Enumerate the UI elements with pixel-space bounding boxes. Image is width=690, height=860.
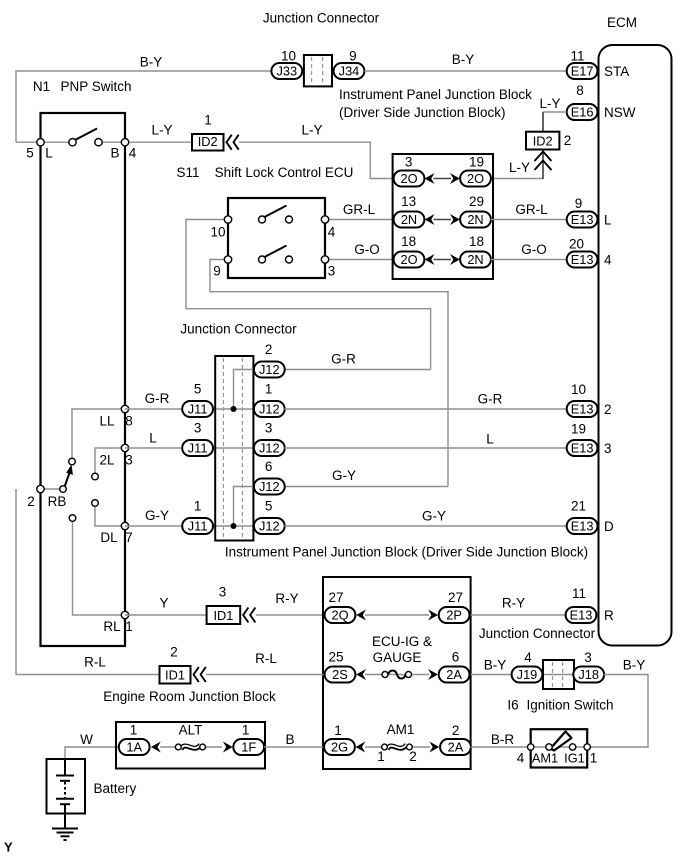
label S11 Shift Lock Control ECU xyxy=(176,165,353,180)
svg-text:G-Y: G-Y xyxy=(422,508,446,523)
svg-text:5: 5 xyxy=(194,381,202,396)
chevrons right of ID1 pin 3 xyxy=(243,608,255,623)
svg-text:2G: 2G xyxy=(331,739,348,754)
ignition contact IG1 xyxy=(564,744,585,766)
svg-text:L-Y: L-Y xyxy=(151,122,172,137)
svg-text:2O: 2O xyxy=(400,171,417,186)
connector 2A pin 2 xyxy=(440,723,471,755)
connector 2N pin 13 xyxy=(394,194,425,228)
ignition switch pin 1 xyxy=(584,744,597,766)
ignition switch pin 4 xyxy=(517,744,534,766)
battery xyxy=(47,759,137,828)
PNP pin 5 xyxy=(26,139,44,161)
svg-text:R-Y: R-Y xyxy=(502,595,525,610)
svg-text:27: 27 xyxy=(448,590,463,605)
PNP pin 7 wire to DL contact xyxy=(95,507,125,527)
svg-text:4: 4 xyxy=(517,750,525,765)
wire G-O 2N pin18 to E13 pin20 xyxy=(491,242,567,260)
wire L-Y from ID2 down to 2O pin 19 xyxy=(491,150,544,180)
svg-text:E13: E13 xyxy=(571,212,594,227)
svg-text:NSW: NSW xyxy=(604,105,636,120)
ignition key symbol xyxy=(551,732,572,751)
shift lock bottom switch blade xyxy=(265,246,287,258)
shift lock ECU box S11 xyxy=(228,198,325,278)
wire B-Y from left bus to J33 xyxy=(16,54,271,142)
junction block box (2Q/2S/2G) xyxy=(323,577,471,769)
svg-text:20: 20 xyxy=(569,236,584,251)
svg-text:E13: E13 xyxy=(571,252,594,267)
svg-text:R: R xyxy=(604,608,614,623)
connector J12 pin 1 xyxy=(254,381,285,417)
svg-text:RB: RB xyxy=(48,494,67,509)
PNP pin 7 xyxy=(100,522,132,545)
svg-text:ID1: ID1 xyxy=(165,668,185,683)
svg-text:21: 21 xyxy=(571,498,586,513)
svg-text:1: 1 xyxy=(125,619,133,634)
wire G-Y PNP pin7 to J11 pin1 xyxy=(125,508,183,526)
svg-text:2: 2 xyxy=(564,133,572,148)
svg-text:6: 6 xyxy=(452,649,460,664)
junction node B (dot) xyxy=(231,523,237,529)
ignition contact AM1 xyxy=(532,744,558,766)
svg-text:1: 1 xyxy=(242,722,250,737)
svg-text:2: 2 xyxy=(265,342,273,357)
svg-text:STA: STA xyxy=(604,64,629,79)
svg-text:IG1: IG1 xyxy=(564,750,585,765)
svg-text:ECU-IG &: ECU-IG & xyxy=(372,634,432,649)
fuse ECU-IG & GAUGE xyxy=(372,634,432,679)
connector J12 pin 2 xyxy=(254,342,285,378)
svg-text:J11: J11 xyxy=(188,401,208,416)
svg-text:G-R: G-R xyxy=(478,391,503,406)
svg-text:Instrument Panel Junction Bloc: Instrument Panel Junction Block (Driver … xyxy=(225,544,588,559)
connector 2O pin 19 xyxy=(460,154,491,186)
svg-text:18: 18 xyxy=(469,234,484,249)
PNP rotary wiper arm xyxy=(65,465,73,487)
svg-text:2P: 2P xyxy=(446,607,462,622)
svg-text:R-L: R-L xyxy=(84,654,106,669)
svg-text:J34: J34 xyxy=(339,63,360,78)
ECM connector E16 pin 8 (NSW) xyxy=(567,83,636,120)
svg-text:8: 8 xyxy=(125,413,133,428)
svg-text:DL: DL xyxy=(100,530,118,545)
svg-text:10: 10 xyxy=(571,382,586,397)
wire R-Y ID1 to 2Q pin27 xyxy=(256,591,325,615)
svg-text:J12: J12 xyxy=(259,518,280,533)
shift lock bottom contacts xyxy=(259,256,293,263)
svg-text:5: 5 xyxy=(26,145,34,160)
svg-text:9: 9 xyxy=(575,196,583,211)
svg-text:10: 10 xyxy=(210,224,225,239)
svg-text:J11: J11 xyxy=(188,518,208,533)
fuse AM1 xyxy=(377,722,417,764)
wire across 2Q to 2P xyxy=(365,614,429,616)
connector 2O pin 18 xyxy=(394,234,425,268)
ECM connector E13 pin 9 (L) xyxy=(567,196,612,228)
svg-text:N1: N1 xyxy=(33,79,50,94)
wire G-R J12 pin2 going right xyxy=(284,351,430,369)
svg-text:2N: 2N xyxy=(467,252,483,267)
PNP contact LL xyxy=(69,458,76,465)
ground xyxy=(52,829,78,841)
connector 2P pin 27 xyxy=(439,590,470,623)
svg-text:R-L: R-L xyxy=(255,651,277,666)
shift lock pin 10 xyxy=(210,216,231,240)
svg-text:G-Y: G-Y xyxy=(332,468,356,483)
label N1 PNP Switch xyxy=(33,79,132,94)
arrows row 2O/2N xyxy=(425,254,460,265)
fusible link box ALT xyxy=(116,722,265,769)
arrow at 1F xyxy=(223,742,233,753)
wire GR-L 2N pin29 to E13 pin9 xyxy=(491,202,567,220)
svg-text:AM1: AM1 xyxy=(532,750,558,765)
svg-text:Junction Connector: Junction Connector xyxy=(263,10,380,25)
connector 2N pin 29 xyxy=(460,194,491,228)
svg-text:L-Y: L-Y xyxy=(539,96,560,111)
svg-text:R-Y: R-Y xyxy=(275,591,298,606)
svg-text:18: 18 xyxy=(401,234,416,249)
svg-text:Shift Lock Control ECU: Shift Lock Control ECU xyxy=(215,165,354,180)
connector J18 pin 3 xyxy=(573,650,604,683)
svg-text:E13: E13 xyxy=(571,401,594,416)
svg-text:Y: Y xyxy=(4,840,13,855)
connector J11 pin 1 xyxy=(182,498,213,534)
svg-text:3: 3 xyxy=(265,420,273,435)
wire J11 pin1 through to J12 pin5 xyxy=(213,525,255,527)
svg-text:J19: J19 xyxy=(517,667,538,682)
connector 2Q pin 27 xyxy=(325,590,356,623)
title: Junction Connector (middle) xyxy=(180,321,297,336)
chevrons right of ID1 pin 2 xyxy=(194,667,206,682)
svg-text:B-Y: B-Y xyxy=(623,657,646,672)
svg-text:2: 2 xyxy=(409,749,417,764)
wire between 2N pin13 and 2N pin29 xyxy=(434,219,452,221)
svg-text:13: 13 xyxy=(401,194,416,209)
connector J12 pin 6 xyxy=(254,459,285,495)
ECM connector E13 pin 21 (D) xyxy=(567,498,614,534)
svg-text:L: L xyxy=(604,212,612,227)
ignition switch box I6 xyxy=(531,729,588,767)
svg-text:5: 5 xyxy=(265,498,273,513)
svg-text:9: 9 xyxy=(349,48,357,63)
svg-text:3: 3 xyxy=(125,452,133,467)
svg-text:E16: E16 xyxy=(571,104,594,119)
svg-text:LL: LL xyxy=(99,413,115,428)
svg-text:1: 1 xyxy=(265,381,273,396)
label I6 Ignition Switch xyxy=(507,697,613,712)
svg-text:27: 27 xyxy=(328,590,343,605)
svg-text:4: 4 xyxy=(129,145,137,160)
svg-text:2: 2 xyxy=(27,494,35,509)
svg-text:ID2: ID2 xyxy=(198,134,218,149)
svg-text:ALT: ALT xyxy=(179,722,203,737)
ECM box U1 xyxy=(599,45,672,646)
internal link J12 pin6 to junction node B xyxy=(234,487,255,527)
svg-text:Junction Connector: Junction Connector xyxy=(180,321,297,336)
svg-text:2: 2 xyxy=(604,402,612,417)
wire inside ALT box xyxy=(160,746,222,748)
PNP pin 2 xyxy=(27,485,66,509)
svg-text:PNP Switch: PNP Switch xyxy=(60,79,131,94)
title: Junction Connector (top) xyxy=(263,10,380,25)
wire inside ignition switch xyxy=(531,746,588,748)
wire J11 pin3 through to J12 pin3 xyxy=(213,447,255,449)
svg-text:1: 1 xyxy=(334,723,342,738)
label Junction Connector (lower) xyxy=(479,626,596,641)
PNP contact DL xyxy=(92,500,99,507)
svg-text:3: 3 xyxy=(405,154,413,169)
svg-text:3: 3 xyxy=(584,650,592,665)
wire L PNP pin3 to J11 pin3 xyxy=(125,430,183,448)
svg-text:6: 6 xyxy=(265,459,273,474)
wire B-R 2A to ignition switch pin4 xyxy=(471,732,531,747)
svg-text:10: 10 xyxy=(281,48,296,63)
wire G-Y J12 pin6 going right xyxy=(284,468,448,487)
svg-text:9: 9 xyxy=(213,263,221,278)
svg-text:GAUGE: GAUGE xyxy=(373,650,422,665)
svg-text:Instrument Panel Junction Bloc: Instrument Panel Junction Block xyxy=(339,87,532,102)
svg-text:J12: J12 xyxy=(259,440,280,455)
svg-text:B-Y: B-Y xyxy=(140,54,163,69)
svg-text:2O: 2O xyxy=(467,171,484,186)
wire fuse row 2S-2A xyxy=(365,674,429,676)
wire between 2O pin18 and 2N pin18 xyxy=(434,259,452,261)
junction node A (dot) xyxy=(231,406,237,412)
svg-text:(Driver Side Junction Block): (Driver Side Junction Block) xyxy=(339,105,506,120)
ECM connector E13 pin 19 (3) xyxy=(567,421,612,456)
svg-text:L: L xyxy=(45,145,53,160)
ECM connector E13 pin 20 (4) xyxy=(567,236,612,267)
connector J12 pin 5 xyxy=(254,498,285,534)
svg-text:3: 3 xyxy=(194,420,202,435)
wire B-Y from J34 to E17 xyxy=(364,52,566,71)
svg-text:1: 1 xyxy=(377,749,385,764)
wire to PNP pin 5 xyxy=(16,141,73,143)
svg-text:G-Y: G-Y xyxy=(145,508,169,523)
svg-text:E13: E13 xyxy=(571,518,594,533)
PNP pin 2 wire RB xyxy=(41,488,64,490)
connector ID1 pin 2 xyxy=(160,644,191,683)
arrow at 2G xyxy=(356,742,366,753)
wire R-Y 2P to E13 pin11 xyxy=(471,595,566,615)
svg-text:L-Y: L-Y xyxy=(509,160,530,175)
ECM connector E13 pin 10 (2) xyxy=(567,382,612,417)
PNP switch box N1 xyxy=(41,113,126,646)
wire through junction box J19-J18 xyxy=(542,674,575,676)
label Instrument Panel Junction Block (Driver Side Junction Block) xyxy=(339,87,532,120)
svg-text:Ignition Switch: Ignition Switch xyxy=(526,697,613,712)
chevrons below ID2 xyxy=(535,152,552,171)
fusible link ALT xyxy=(175,722,205,750)
arrow at 2A (bottom) xyxy=(429,742,439,753)
wire R-L ID1 to 2S pin25 xyxy=(206,651,325,675)
svg-text:7: 7 xyxy=(125,530,133,545)
svg-text:2N: 2N xyxy=(467,212,483,227)
svg-text:B-R: B-R xyxy=(491,732,515,747)
wire B 1F to 2G xyxy=(264,732,325,747)
arrows row 2O xyxy=(425,173,460,184)
svg-text:2S: 2S xyxy=(332,667,348,682)
arrow at 2P xyxy=(428,610,438,621)
svg-text:B-Y: B-Y xyxy=(452,52,475,67)
svg-text:2L: 2L xyxy=(99,452,115,467)
svg-text:GR-L: GR-L xyxy=(515,202,548,217)
svg-text:1A: 1A xyxy=(126,739,142,754)
connector J11 pin 3 xyxy=(182,420,213,456)
label Engine Room Junction Block xyxy=(103,689,276,704)
svg-text:J12: J12 xyxy=(259,401,280,416)
wire shift pin10 to J12 pin2 (G-R) xyxy=(186,220,431,370)
shift lock pin 4 xyxy=(321,216,335,240)
svg-text:J18: J18 xyxy=(578,667,599,682)
svg-text:ID1: ID1 xyxy=(213,608,233,623)
wire G-R PNP pin8 to J11 pin5 xyxy=(125,391,183,409)
svg-text:ID2: ID2 xyxy=(533,134,553,149)
shift lock top switch blade xyxy=(265,206,287,218)
svg-text:1: 1 xyxy=(194,498,202,513)
junction block box (J19/J18) xyxy=(543,660,574,689)
wire L J12 pin3 to E13 pin19 xyxy=(284,431,566,448)
svg-text:Y: Y xyxy=(159,595,168,610)
arrows row 2N xyxy=(425,214,460,225)
connector ID2 pin 2 xyxy=(526,132,571,150)
arrow at 2A (row 2S) xyxy=(428,669,438,680)
wire between 2O pin3 and 2O pin19 xyxy=(434,178,452,180)
svg-text:1: 1 xyxy=(130,722,138,737)
svg-text:L-Y: L-Y xyxy=(301,122,322,137)
svg-text:L: L xyxy=(149,430,157,445)
connector J19 pin 4 xyxy=(512,650,543,683)
wire W battery to 1A xyxy=(65,732,118,759)
svg-text:W: W xyxy=(80,732,93,747)
svg-text:B: B xyxy=(285,732,294,747)
svg-text:4: 4 xyxy=(604,252,612,267)
connector 2A pin 6 xyxy=(439,649,470,682)
svg-text:B-Y: B-Y xyxy=(484,657,507,672)
connector 2N pin 18 xyxy=(460,234,491,268)
svg-text:19: 19 xyxy=(469,154,484,169)
svg-text:1: 1 xyxy=(204,112,212,127)
connector J34 pin 9 xyxy=(334,48,365,79)
connector ID1 pin 3 xyxy=(207,584,241,624)
svg-text:E13: E13 xyxy=(571,440,594,455)
svg-text:Engine Room Junction Block: Engine Room Junction Block xyxy=(103,689,276,704)
svg-text:8: 8 xyxy=(576,83,584,98)
page reference Y xyxy=(4,840,13,855)
connector block 2O/2N box xyxy=(393,154,493,279)
svg-text:G-O: G-O xyxy=(354,242,380,257)
svg-text:GR-L: GR-L xyxy=(343,202,376,217)
svg-text:3: 3 xyxy=(219,584,227,599)
svg-text:3: 3 xyxy=(328,263,336,278)
svg-text:1: 1 xyxy=(590,750,598,765)
PNP pin 8 xyxy=(99,405,132,428)
arrow at 2Q xyxy=(356,610,366,621)
PNP contact RL xyxy=(69,515,76,522)
shift lock top contacts xyxy=(259,216,293,223)
svg-text:11: 11 xyxy=(570,48,584,63)
wire G-R J12 pin1 to E13 pin10 xyxy=(284,391,566,409)
connector ID2 pin 1 xyxy=(192,112,224,150)
svg-text:2O: 2O xyxy=(400,252,417,267)
svg-text:Junction Connector: Junction Connector xyxy=(479,626,596,641)
PNP pin 1 wire to RL contact xyxy=(73,522,126,616)
svg-text:E13: E13 xyxy=(570,607,593,622)
label Instrument Panel Junction Block (Driver Side Junction Block) bottom xyxy=(225,544,588,559)
ECM connector E17 pin 11 (STA) xyxy=(567,48,630,79)
wire GR-L shift pin4 to 2N pin13 xyxy=(325,202,394,220)
svg-text:2: 2 xyxy=(170,644,178,659)
PNP pin 3 wire to 2L contact xyxy=(95,448,125,473)
svg-text:2: 2 xyxy=(452,723,460,738)
connector J33 pin 10 xyxy=(271,48,302,79)
svg-text:D: D xyxy=(604,519,614,534)
svg-text:L: L xyxy=(486,431,494,446)
svg-text:4: 4 xyxy=(524,650,532,665)
svg-text:G-R: G-R xyxy=(145,391,170,406)
wire G-Y J12 pin5 to E13 pin21 xyxy=(284,508,566,526)
wire fuse row 2G-2A xyxy=(365,746,430,748)
shift lock pin 3 xyxy=(321,256,335,278)
connector 2O pin 3 xyxy=(394,154,425,186)
svg-text:1F: 1F xyxy=(241,739,256,754)
svg-text:S11: S11 xyxy=(176,165,199,180)
svg-text:2Q: 2Q xyxy=(331,607,348,622)
svg-text:19: 19 xyxy=(571,421,586,436)
PNP pin 1 xyxy=(103,611,132,634)
wire L-Y from E16 to ID2 xyxy=(539,96,566,132)
svg-text:29: 29 xyxy=(469,194,484,209)
wire B-Y J18 to ignition switch pin1 xyxy=(587,657,648,747)
svg-text:B: B xyxy=(110,145,119,160)
svg-text:J11: J11 xyxy=(188,440,208,455)
svg-text:4: 4 xyxy=(328,224,336,239)
wire PNP pin 4 to ID2 xyxy=(99,122,193,142)
arrow at 2S xyxy=(356,669,366,680)
svg-text:J33: J33 xyxy=(276,63,297,78)
svg-text:25: 25 xyxy=(328,649,343,664)
svg-text:E17: E17 xyxy=(571,63,594,78)
connector 2S pin 25 xyxy=(325,649,356,682)
svg-text:Battery: Battery xyxy=(94,781,137,796)
PNP pin 3 xyxy=(99,444,132,467)
svg-text:ECM: ECM xyxy=(607,15,637,30)
PNP wiper pivot xyxy=(60,486,67,493)
internal link J12 pin2 to junction node A xyxy=(234,370,255,410)
PNP contact 2L xyxy=(92,473,99,480)
connector J11 pin 5 xyxy=(182,381,213,417)
ECM connector E13 pin 11 (R) xyxy=(566,586,614,623)
connector 1F pin 1 xyxy=(233,722,264,755)
PNP start contact right xyxy=(95,139,120,161)
svg-text:2A: 2A xyxy=(446,667,462,682)
label ECM xyxy=(607,15,637,30)
wire B-Y 2A to J19 xyxy=(471,657,512,674)
connector 1A pin 1 xyxy=(119,722,150,755)
wire G-O shift pin3 to 2O pin18 xyxy=(325,242,394,260)
PNP pin 4 xyxy=(121,139,136,161)
svg-text:3: 3 xyxy=(604,441,612,456)
connector 2G pin 1 xyxy=(324,723,355,755)
svg-text:RL: RL xyxy=(103,619,121,634)
svg-text:J12: J12 xyxy=(259,479,280,494)
svg-text:I6: I6 xyxy=(507,697,518,712)
svg-text:G-O: G-O xyxy=(521,242,547,257)
wire Y PNP pin1 to ID1 xyxy=(125,595,207,615)
svg-text:J12: J12 xyxy=(259,362,280,377)
PNP start contact left xyxy=(45,139,76,161)
junction connector box (middle) xyxy=(215,356,253,541)
